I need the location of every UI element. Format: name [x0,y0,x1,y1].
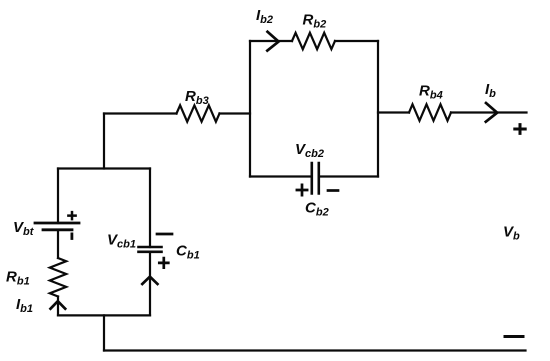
wire top stub from node A down to left loop top [103,114,105,169]
wire bottom rail to negative terminal [104,349,526,351]
resistor Rb2 [292,33,335,49]
arrow Ib1 current direction [51,301,66,309]
arrow Icb1 current direction [142,277,157,284]
capacitor Cb2 [312,163,319,194]
wire Rb1 to bottom [57,297,59,316]
svg-text:Rb4: Rb4 [419,83,443,102]
svg-text:Ib1: Ib1 [16,296,33,315]
plus sign Cb1 bottom [159,258,168,268]
minus sign Cb2 right [328,189,338,192]
minus sign output terminal [505,335,523,338]
plus sign Cb2 left [297,185,307,195]
plus sign battery positive [68,212,75,219]
wire left loop left edge upper [57,169,59,224]
capacitor Cb1 [139,247,162,252]
wire middle loop bottom left segment [250,175,312,177]
svg-text:Rb1: Rb1 [6,269,30,288]
wire bottom drop junction [103,315,105,350]
svg-text:Vcb1: Vcb1 [107,232,136,251]
minus sign Cb1 top [157,233,172,236]
svg-text:Cb2: Cb2 [305,200,329,219]
wire middle loop top left segment [250,40,292,42]
svg-text:Ib2: Ib2 [256,7,273,26]
svg-text:Rb3: Rb3 [185,88,209,107]
svg-text:Cb1: Cb1 [176,243,200,262]
svg-text:Vcb2: Vcb2 [295,141,324,160]
wire battery to Rb1 [57,230,59,258]
resistor Rb1 [50,258,66,297]
wire left loop top [58,167,150,169]
wire Rb4 right lead to positive terminal [451,111,527,113]
arrow Ib current direction [486,103,497,122]
svg-text:Rb2: Rb2 [303,12,327,31]
wire middle loop bottom right segment [319,175,378,177]
wire left loop bottom [58,314,150,316]
resistor Rb3 [177,105,220,121]
battery Vbt [35,223,79,230]
wire Rb3 right lead to middle loop [220,112,251,114]
plus sign output terminal [515,125,525,134]
arrow Ib2 current direction [267,32,278,51]
svg-text:Vbt: Vbt [13,219,35,238]
wire middle loop right edge [377,41,379,177]
wire left loop right edge upper [149,169,151,248]
resistor Rb4 [409,104,451,120]
svg-text:Ib: Ib [485,81,496,100]
wire Rb3 left lead [104,112,177,114]
wire left loop right edge lower [149,252,151,316]
minus tick battery negative [71,234,74,239]
svg-text:Vb: Vb [503,224,520,243]
wire middle loop left edge [249,41,251,177]
wire Rb4 left lead [378,111,409,113]
wire middle loop top right segment [335,40,378,42]
